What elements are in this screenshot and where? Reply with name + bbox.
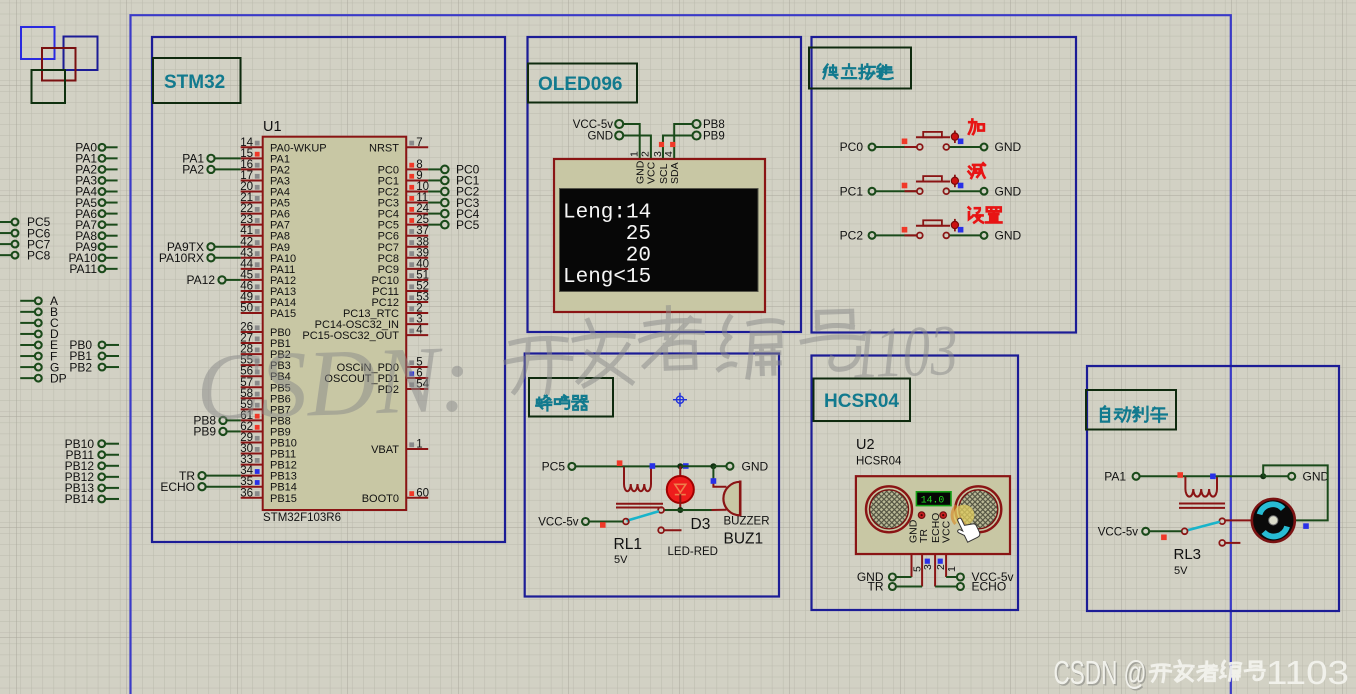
U1 pin 23 (PA7) left stub [241,224,263,226]
terminal PB10 (bottom-left column) [105,443,119,445]
push button PC1 [905,190,918,192]
red function label [969,119,984,134]
wire button to GND [950,146,981,148]
junction node at buzzer branch [710,463,716,469]
svg-text:PC8: PC8 [27,248,51,262]
svg-text:ECHO: ECHO [160,480,195,494]
buzzer module outer box [525,354,779,597]
svg-text:TR: TR [868,580,884,594]
svg-text:Leng<15: Leng<15 [563,266,651,289]
svg-text:1: 1 [946,566,958,572]
svg-text:60: 60 [416,487,429,499]
relay RL3 coil [1179,476,1225,508]
svg-text:20: 20 [626,245,651,268]
svg-text:GND: GND [635,160,647,184]
wire PC0 to button [875,146,917,148]
pin state square red [617,460,623,466]
terminal D (segment bus) [20,333,35,335]
svg-text:STM32: STM32 [164,72,225,93]
pin state square blue (motor right) [1303,523,1309,529]
wire GND branch down to buzzer pin [712,466,714,481]
terminal PB12 (bottom-left column) [105,476,119,478]
terminal PA2 (left column) [105,168,117,170]
U1 pin 49 (PA14) left stub [241,301,263,303]
terminal PA6 (left column) [105,213,117,215]
svg-text:U1: U1 [263,119,282,135]
buzzer BUZ1 body [723,482,740,516]
wire coil to LED junction [624,465,680,467]
terminal PB14 (bottom-left column) [105,498,119,500]
RL1 NC stub wire [664,529,682,531]
svg-text:ECHO: ECHO [972,580,1007,594]
svg-text:HCSR04: HCSR04 [856,456,902,468]
LED D3 body [679,466,681,477]
relay RL3 NC contact [1219,540,1225,546]
svg-text:PB9: PB9 [703,131,725,143]
svg-text:5V: 5V [1174,565,1188,577]
terminal PC3 (right of U1) [428,202,441,204]
svg-text:PB8: PB8 [703,119,725,131]
auto-brake module outer box [1087,366,1339,611]
U1 pin 45 (PA12) left stub [241,279,263,281]
center watermark CSDN script [194,298,960,441]
terminal GND (button row) [981,232,988,239]
svg-text:HCSR04: HCSR04 [824,391,899,412]
microcontroller U1 STM32F103R6 body [263,137,407,510]
U1 pin 51 (PC10) right stub [406,279,428,281]
svg-text:PB2: PB2 [69,360,92,374]
terminal GND (brake) [1288,473,1295,480]
wire coil top across [1185,475,1263,477]
relay RL3 switch blade [1188,522,1220,530]
wire button to GND [950,190,981,192]
terminal PA8 (left column) [105,235,117,237]
svg-text:36: 36 [240,487,253,499]
U1 pin 17 (PA3) left stub [241,179,263,181]
wire loop to motor right [1263,465,1328,520]
pin state square (right, blue) [958,139,964,145]
terminal PB13 (bottom-left column) [105,487,119,489]
svg-text:VCC-5v: VCC-5v [573,119,614,131]
svg-text:TR: TR [918,529,930,543]
U1 pin 62 (PB9) left stub [241,430,263,432]
svg-text:GND: GND [587,131,613,143]
pin state square (left, red) [902,183,908,189]
relay RL3 common contact [1219,518,1225,524]
pin state square (left, red) [902,227,908,233]
pin state square SCL [659,142,664,147]
terminal VCC-5v (OLED) [615,120,623,128]
U1 pin 5 (OSCIN_PD0) right stub [406,366,428,368]
U1 pin 44 (PA11) left stub [241,268,263,270]
svg-text:VBAT: VBAT [371,444,399,456]
svg-text:PC5: PC5 [456,218,480,232]
svg-text:U2: U2 [856,437,875,453]
terminal PA9TX (to U1) [214,246,240,248]
terminal GND (button row) [981,188,988,195]
wire PB9 to OLED pin3 SCL [663,136,693,160]
U1 pin 34 (PB13) left stub [241,475,263,477]
pin state square red (VCC wire) [600,522,606,528]
U1 pin 36 (PB15) left stub [241,497,263,499]
U1 pin 10 (PC2) right stub [406,191,428,193]
svg-text:PB14: PB14 [65,492,95,506]
junction node at D3 anode [677,463,683,469]
svg-text:PC0: PC0 [840,140,864,154]
U1 pin 25 (PC5) right stub [406,224,428,226]
U1 pin 40 (PC9) right stub [406,268,428,270]
svg-text:STM32F103R6: STM32F103R6 [263,512,341,524]
terminal VCC-5v (HCSR04) [957,574,964,581]
svg-text:1: 1 [416,439,422,451]
svg-text:DP: DP [50,371,67,385]
terminal A (segment bus) [20,300,35,302]
pin state square blue (coil right) [1210,474,1216,480]
terminal TR (HCSR04) [889,583,896,590]
U1 pin 50 (PA15) left stub [241,312,263,314]
svg-text:RL1: RL1 [614,536,642,553]
wire U2 TR [896,586,922,588]
svg-text:PB15: PB15 [270,493,297,505]
terminal PC8 (far left) [0,254,12,256]
svg-text:NRST: NRST [369,142,399,154]
svg-text:VCC: VCC [941,520,953,543]
U2 left transducer [866,486,912,532]
U1 pin 55 (PB3) left stub [241,364,263,366]
U1 pin 42 (PA9) left stub [241,246,263,248]
U1 pin 20 (PA4) left stub [241,191,263,193]
terminal PA7 (left column) [105,224,117,226]
U1 pin 27 (PB1) left stub [241,342,263,344]
U1 pin 6 (OSCOUT_PD1) right stub [406,377,428,379]
svg-text:25: 25 [626,223,651,246]
U1 pin 59 (PB7) left stub [241,408,263,410]
terminal PA9 (left column) [105,246,117,248]
OLED096 label box [528,64,637,103]
U1 pin 33 (PB12) left stub [241,464,263,466]
U1 pin 52 (PC11) right stub [406,290,428,292]
wire junction to GND terminal [1263,475,1288,477]
terminal DP (segment bus) [20,377,35,379]
terminal PA2 (to U1) [214,168,240,170]
terminal PC4 (right of U1) [428,213,441,215]
overlapping squares motif top-left [21,27,55,59]
terminal PC5 (right of U1) [428,224,441,226]
wire to GND terminal [713,465,726,467]
HCSR04 module outer box [812,356,1019,611]
wire button to GND [950,234,981,236]
svg-text:GND: GND [995,140,1022,154]
terminal PA1 (to U1) [214,157,240,159]
red function label [969,207,983,222]
sheet border frame [131,15,1231,694]
OLED096 module outer box [528,37,802,332]
U1 pin 39 (PC8) right stub [406,257,428,259]
mouse hand cursor [953,513,981,544]
U1 pin 14 (PA0-WKUP) left stub [241,146,263,148]
wire PC1 to button [875,190,917,192]
HCSR04 label box [814,379,911,422]
wire PC5 to relay RL1 coil [575,465,624,467]
pin state square red (VCC wire) [1161,535,1167,541]
U2 trim pin left [918,512,925,519]
U2 pin 3 stub [921,554,923,587]
terminal PA11 (left column) [105,268,117,270]
terminal PB12 (bottom-left column) [105,465,119,467]
svg-text:SDA: SDA [669,162,681,184]
U1 pin 1 (VBAT) right stub [406,448,428,450]
relay RL3 pole [1182,528,1188,534]
U1 pin 21 (PA5) left stub [241,202,263,204]
wire PA1 to relay RL3 coil [1140,475,1186,477]
RL3 NC stub wire [1225,542,1240,544]
red function label [969,163,985,178]
U1 pin 29 (PB10) left stub [241,442,263,444]
svg-text:D3: D3 [691,516,711,533]
svg-text:BUZ1: BUZ1 [724,531,764,548]
terminal PA10RX (to U1) [214,257,240,259]
pin state square blue (buzzer wire) [711,478,717,484]
svg-text:GND: GND [742,459,769,473]
terminal VCC-5v (brake) [1142,528,1149,535]
terminal PA12 (to U1) [225,279,240,281]
U1 pin 53 (PC12) right stub [406,301,428,303]
svg-text:BUZZER: BUZZER [724,516,770,528]
terminal PB2 (left column) [105,366,119,368]
wire U2 GND [896,576,912,578]
U1 pin 3 (PC14-OSC32_IN) right stub [406,323,428,325]
terminal ECHO (HCSR04) [957,583,964,590]
wire junction to GND junction [680,465,713,467]
terminal GND (buzzer) [726,463,733,470]
pin state square TR [925,559,930,564]
wire U2 VCC [946,576,957,578]
terminal PA5 (left column) [105,202,117,204]
wire D3 cathode to buzzer [664,509,712,511]
bottom-right watermark CSDN @kai fa zhe bian hao 1103 [1054,654,1350,693]
svg-text:RL3: RL3 [1174,546,1202,563]
svg-text:OLED096: OLED096 [538,74,622,95]
U1 pin 15 (PA1) left stub [241,157,263,159]
svg-text:CSDN:: CSDN: [195,325,473,441]
svg-text:3: 3 [922,564,934,570]
U1 pin 58 (PB6) left stub [241,397,263,399]
terminal GND (OLED) [615,132,623,140]
U1 pin 57 (PB5) left stub [241,386,263,388]
svg-text:SCL: SCL [658,163,670,184]
U1 pin 7 (NRST) right stub [406,146,428,148]
wire PC2 to button [875,234,917,236]
U2 pin 1 stub [945,554,947,577]
wire VCC-5v to RL1 pole [589,521,623,523]
terminal C (segment bus) [20,322,35,324]
svg-text:50: 50 [240,303,253,315]
terminal PC0 (right of U1) [428,168,441,170]
pin state square (right, blue) [958,227,964,233]
wire lower buzzer pin [712,509,727,511]
terminal PB8 (to U1) [226,419,240,421]
pin state square blue (right of junction) [683,463,689,469]
U2 pin 2 stub [934,554,936,587]
terminal GND (HCSR04) [889,574,896,581]
U2 distance display [916,492,951,506]
svg-text:CSDN @: CSDN @ [1054,654,1147,691]
U1 pin 9 (PC1) right stub [406,179,428,181]
terminal PA0 (left column) [105,146,117,148]
terminal GND (button row) [981,144,988,151]
U1 pin 22 (PA6) left stub [241,213,263,215]
STM32 module outer box [152,37,505,542]
U1 pin 24 (PC4) right stub [406,213,428,215]
U1 pin 54 (PD2) right stub [406,388,428,390]
wire RL3 common to motor left [1225,519,1252,521]
U1 pin 26 (PB0) left stub [241,331,263,333]
push button PC0 [905,146,918,148]
U1 pin 46 (PA13) left stub [241,290,263,292]
U1 pin 16 (PA2) left stub [241,168,263,170]
pin state square (left, red) [902,139,908,145]
terminal ECHO (to U1) [205,486,240,488]
svg-text:Leng:14: Leng:14 [563,202,651,225]
svg-text:7: 7 [416,137,422,149]
terminal PB1 (left column) [105,355,119,357]
relay RL1 coil [616,466,663,507]
U1 pin 4 (PC15-OSC32_OUT) right stub [406,334,428,336]
svg-text:1103: 1103 [850,310,959,394]
terminal TR (to U1) [205,475,240,477]
svg-text:VCC: VCC [646,161,658,184]
svg-text:LED-RED: LED-RED [668,546,718,558]
svg-text:GND: GND [995,229,1022,243]
pin state square SDA [670,142,675,147]
U1 pin 11 (PC3) right stub [406,202,428,204]
terminal E (segment bus) [20,344,35,346]
wire VCC-5v to OLED pin1 [623,124,640,159]
terminal PC7 (far left) [0,243,12,245]
U1 pin 8 (PC0) right stub [406,168,428,170]
U1 pin 2 (PC13_RTC) right stub [406,312,428,314]
terminal PA4 (left column) [105,191,117,193]
svg-text:PC2: PC2 [840,229,864,243]
U1 pin 43 (PA10) left stub [241,257,263,259]
svg-text:VCC-5v: VCC-5v [538,517,579,529]
U1 pin 60 (BOOT0) right stub [406,497,428,499]
terminal PB9 (to U1) [226,430,240,432]
STM32 label box [153,58,241,103]
svg-text:PA12: PA12 [187,273,216,287]
OLED display module body [554,159,765,312]
cursor highlight glow [953,505,974,526]
buzzer label box (feng ming qi) [529,378,613,417]
terminal PB9 (OLED) [693,132,701,140]
terminal PC5 (far left) [0,221,12,223]
svg-text:VCC-5v: VCC-5v [1098,527,1139,539]
terminal PC1 (right of U1) [428,179,441,181]
terminal PA1 (left column) [105,157,117,159]
terminal PB8 (OLED) [693,120,701,128]
svg-text:BOOT0: BOOT0 [362,493,399,505]
wire GND to OLED pin2 [623,136,651,160]
svg-text:1: 1 [629,151,641,157]
keys label box (du li an jian) [809,48,911,89]
U2 pin 5 stub [911,554,913,577]
push button PC2 [905,234,918,236]
U1 pin 35 (PB14) left stub [241,486,263,488]
U1 pin 38 (PC7) right stub [406,246,428,248]
motor (brake actuator) [1252,499,1295,542]
terminal PB11 (bottom-left column) [105,454,119,456]
svg-text:PA15: PA15 [270,308,296,320]
OLED screen [560,189,759,292]
svg-text:GND: GND [1303,470,1330,484]
auto-brake label box (zi dong sha che) [1086,390,1176,430]
pin state square ECHO [938,559,943,564]
svg-text:3: 3 [652,151,664,157]
terminal PC2 (right of U1) [428,191,441,193]
U1 pin 28 (PB2) left stub [241,353,263,355]
svg-text:GND: GND [995,184,1022,198]
terminal B (segment bus) [20,311,35,313]
U1 pin 56 (PB4) left stub [241,375,263,377]
wire U2 ECHO [935,586,957,588]
terminal G (segment bus) [20,366,35,368]
svg-text:1103: 1103 [1266,654,1349,691]
wire VCC-5v to RL3 pole [1149,530,1182,532]
pin state square blue (coil right) [650,463,656,469]
U1 pin 61 (PB8) left stub [241,419,263,421]
U2 trim pin right [940,512,947,519]
U1 pin 37 (PC6) right stub [406,235,428,237]
relay RL1 NC contact [658,527,664,533]
svg-text:14.0: 14.0 [921,494,945,505]
svg-text:PA10RX: PA10RX [159,251,204,265]
U1 pin 41 (PA8) left stub [241,235,263,237]
terminal PB0 (left column) [105,344,119,346]
junction node (GND branch) [1260,473,1266,479]
svg-text:PA11: PA11 [69,262,97,276]
relay RL1 pole [623,519,629,525]
junction node at D3 cathode [677,507,683,513]
svg-text:5V: 5V [614,554,628,566]
svg-text:2: 2 [640,151,652,157]
svg-text:PA2: PA2 [182,163,204,177]
wire PB8 to OLED pin4 SDA [674,124,692,159]
terminal PC6 (far left) [0,232,12,234]
svg-text:4: 4 [663,151,675,157]
U2 right transducer [955,486,1001,532]
pin state square red (PA1 wire) [1177,472,1183,478]
terminal PA3 (left column) [105,179,117,181]
keys module outer box [812,37,1077,333]
svg-text:PA1: PA1 [1104,470,1126,484]
terminal PA10 (left column) [105,257,117,259]
svg-text:PC1: PC1 [840,184,864,198]
terminal VCC-5v (buzzer) [582,518,589,525]
U1 pin 30 (PB11) left stub [241,453,263,455]
pin state square (right, blue) [958,183,964,189]
terminal F (segment bus) [20,355,35,357]
ultrasonic sensor U2 body [856,476,1010,554]
blue origin crosshair marker [673,393,687,407]
relay RL1 switch blade [627,511,659,521]
relay RL1 NO contact [658,507,664,513]
svg-text:PC5: PC5 [542,460,566,474]
